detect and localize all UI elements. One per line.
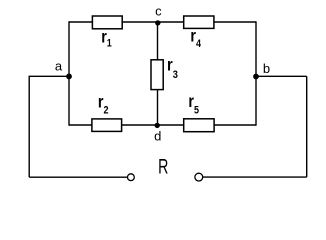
terminal right open circle	[195, 173, 203, 181]
wire left outer vertical	[28, 76, 30, 177]
terminal left open circle	[127, 174, 134, 181]
node c junction dot	[155, 20, 160, 25]
node a junction dot	[66, 74, 72, 80]
svg-text:R: R	[158, 155, 168, 179]
svg-text:b: b	[263, 61, 270, 76]
resistor r2	[92, 119, 122, 131]
label r4	[190, 27, 201, 50]
wire right outer vertical	[306, 76, 308, 177]
svg-text:r4: r4	[190, 27, 201, 50]
resistor r1	[92, 16, 122, 29]
wire bottom rail d	[69, 124, 256, 126]
label r5	[188, 93, 199, 117]
wire node b stub	[256, 75, 307, 77]
node d junction dot	[155, 123, 160, 128]
label r3	[167, 56, 178, 82]
svg-text:d: d	[154, 129, 161, 144]
wire bottom right to terminal	[203, 176, 307, 178]
resistor r5	[184, 119, 214, 132]
svg-text:r2: r2	[98, 93, 109, 117]
wire top rail c	[69, 21, 256, 23]
label r1	[101, 28, 112, 50]
svg-text:a: a	[55, 58, 63, 73]
wire left branch vertical	[68, 21, 70, 125]
wire bottom left to terminal	[29, 176, 127, 178]
wire right branch vertical	[255, 21, 257, 125]
resistor r3	[151, 60, 163, 90]
label R	[158, 155, 168, 179]
svg-text:r1: r1	[101, 28, 112, 50]
node b junction dot	[253, 74, 259, 80]
label r2	[98, 93, 109, 117]
wire middle vertical through r3	[157, 22, 159, 125]
wire node a stub	[29, 75, 70, 77]
svg-text:c: c	[155, 3, 162, 18]
svg-text:r5: r5	[188, 93, 199, 117]
resistor r4	[184, 16, 214, 28]
svg-text:r3: r3	[167, 56, 178, 82]
